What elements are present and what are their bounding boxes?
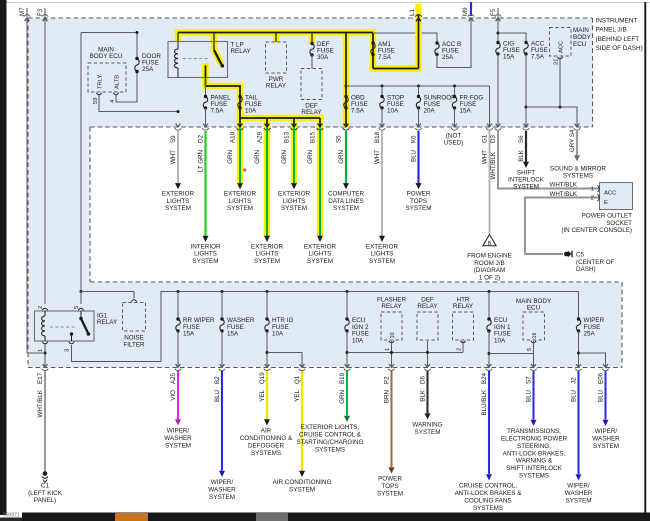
label ECU IGN 1 FUSE 10A [494, 317, 511, 344]
svg-text:PANEL): PANEL) [34, 497, 56, 504]
svg-text:ECU: ECU [573, 41, 587, 48]
svg-text:P2: P2 [383, 376, 390, 384]
relay T LP box [168, 42, 228, 78]
svg-text:5: 5 [74, 306, 80, 309]
junction main body ECU ACC pin wire [559, 106, 562, 109]
svg-text:SOUND & MIRROR: SOUND & MIRROR [550, 166, 606, 173]
label GRN on B15 [307, 150, 314, 164]
svg-text:S7: S7 [525, 376, 532, 384]
arrow B2 [219, 471, 225, 477]
svg-text:WASHER: WASHER [565, 490, 593, 497]
svg-text:B15: B15 [310, 131, 317, 143]
wire A29 GRN core [266, 127, 268, 237]
svg-text:(IN CENTER CONSOLE): (IN CENTER CONSOLE) [561, 227, 632, 234]
svg-text:21: 21 [554, 59, 560, 65]
wire FR FOG fuse feed [454, 86, 456, 97]
svg-text:RELAY: RELAY [97, 319, 118, 326]
junction ACC output split [525, 106, 528, 109]
fuse PANEL 7.5A [203, 95, 207, 110]
pin 2 of IG1 [38, 306, 48, 311]
svg-text:SYSTEM: SYSTEM [593, 443, 619, 450]
label Q19 [259, 372, 266, 384]
instrument panel J/B bottom band fill [28, 282, 622, 368]
svg-text:BLU/BLK: BLU/BLK [481, 389, 488, 415]
label WHT/BLK on D3 [490, 151, 497, 179]
wire feed to noise filter [81, 292, 134, 299]
connector exit S7 [530, 364, 537, 371]
text exterior lights system (A10) [224, 191, 257, 213]
wire SUNROOF fuse to K6 exit [418, 108, 420, 127]
connector exit B2 [219, 364, 226, 371]
svg-text:GRN: GRN [254, 150, 261, 164]
svg-text:DASH): DASH) [576, 266, 596, 273]
J/B dashed border top edge [28, 17, 593, 19]
wire main body ECU pin to S7 exit [533, 341, 535, 368]
svg-text:10A: 10A [494, 337, 506, 344]
bottom black bar [0, 513, 650, 521]
label OBD FUSE 7.5A [351, 95, 368, 115]
svg-text:RELAY: RELAY [231, 48, 252, 55]
label K6 [410, 135, 417, 143]
label VIO on A25 [170, 390, 177, 401]
wire HTR IG to Q19 exit [266, 331, 268, 368]
svg-text:15A: 15A [460, 107, 472, 114]
svg-text:SYSTEM: SYSTEM [227, 205, 253, 212]
svg-text:LIGHTS: LIGHTS [194, 251, 217, 258]
arrow S5 [343, 183, 349, 189]
J/B dashed border right edge of top band [592, 18, 594, 127]
label BLK on D6 [419, 389, 426, 402]
wire D2 LT GRN to interior lights [204, 131, 206, 237]
svg-text:LIGHTS: LIGHTS [167, 198, 190, 205]
connector exit S6 [523, 124, 530, 131]
fuse DOOR 25A [135, 57, 139, 73]
svg-text:AIR: AIR [261, 428, 272, 435]
connector exit D3 [495, 124, 502, 131]
svg-text:25A: 25A [442, 54, 454, 61]
svg-text:Q19: Q19 [259, 372, 266, 384]
svg-text:WIPER/: WIPER/ [167, 428, 190, 435]
wire ACC B fuse feed [436, 33, 438, 43]
label BLU on S7 [525, 390, 532, 402]
label F5 [490, 8, 497, 16]
wire FLASHER pin to P2 exit [391, 341, 393, 368]
svg-text:WARNING: WARNING [412, 422, 442, 429]
wire core AM1 loop bottom [373, 68, 419, 70]
connector exit S9 [175, 124, 182, 131]
fuse TAIL 10A [238, 95, 242, 110]
connector exit K6 [415, 124, 422, 131]
svg-text:E: E [604, 200, 608, 206]
text exterior lights system (B15) [304, 243, 337, 265]
wire FR FOG fuse to NOT USED exit [454, 108, 456, 127]
wire ALTB pin 4 to door fuse [116, 72, 137, 103]
svg-text:EXTERIOR: EXTERIOR [278, 191, 311, 198]
svg-text:SYSTEMS: SYSTEMS [473, 505, 503, 512]
wire core A10 drop [239, 118, 241, 127]
svg-text:RELAY: RELAY [266, 82, 287, 89]
svg-text:ECU: ECU [527, 305, 541, 312]
stray red scan dot [243, 168, 246, 171]
instrument panel J/B top band fill [28, 18, 593, 127]
svg-text:WHT/BLK: WHT/BLK [549, 182, 577, 189]
svg-text:LIGHTS: LIGHTS [229, 198, 252, 205]
label M7 [19, 7, 26, 16]
label WHT/BLK on E17 [37, 389, 44, 417]
svg-text:GRN: GRN [339, 390, 346, 404]
label S9 [170, 135, 177, 143]
svg-text:16: 16 [532, 333, 538, 339]
junction F5 split [497, 32, 500, 35]
svg-text:TOPS: TOPS [410, 198, 427, 205]
connector exit S4 [574, 124, 581, 131]
svg-text:25A: 25A [584, 331, 596, 338]
svg-text:TOPS: TOPS [381, 483, 398, 490]
svg-text:COMPUTER: COMPUTER [328, 191, 364, 198]
text exterior lights system (A29) [251, 243, 284, 265]
svg-text:7.5A: 7.5A [378, 54, 392, 61]
junction HTR IG at bus [266, 290, 269, 293]
junction RR WIPER at bus [177, 290, 180, 293]
svg-text:ELECTRONIC POWER: ELECTRONIC POWER [501, 436, 568, 443]
arrow S4 [574, 155, 580, 161]
fuse AM1 7.5A [371, 41, 375, 56]
svg-text:SYSTEM: SYSTEM [165, 205, 191, 212]
label WHT on G1 [481, 150, 488, 164]
wire B2 BLU [221, 371, 223, 471]
wire core coil drop [177, 33, 179, 43]
svg-text:(CENTER OF: (CENTER OF [576, 259, 615, 266]
svg-text:BLU: BLU [214, 390, 221, 402]
svg-text:WASHER: WASHER [208, 487, 236, 494]
arrow B19 [344, 416, 350, 422]
label NOT USED [444, 133, 464, 147]
label HTR RELAY [453, 297, 474, 311]
svg-text:LIGHTS: LIGHTS [371, 251, 394, 258]
connector exit A25 [175, 364, 182, 371]
svg-text:BLU: BLU [597, 390, 604, 402]
relay FLASHER dashed box [381, 312, 402, 340]
svg-text:GRN: GRN [307, 150, 314, 164]
svg-text:F3: F3 [37, 8, 44, 16]
svg-text:B13: B13 [284, 131, 291, 143]
label F3 [37, 8, 44, 16]
svg-text:TRLY: TRLY [98, 74, 104, 89]
arrow Q1 [299, 471, 305, 477]
svg-text:LT GRN: LT GRN [197, 150, 204, 172]
label B19 [339, 372, 346, 384]
svg-text:EXTERIOR: EXTERIOR [251, 243, 284, 250]
junction STOP at bus [381, 85, 384, 88]
wire WASHER feed [221, 292, 223, 320]
wire core OBD drop [345, 33, 347, 128]
svg-text:SIDE OF DASH): SIDE OF DASH) [596, 45, 643, 52]
wire J2 BLU [577, 371, 579, 474]
text sound and mirror systems (S4) [550, 166, 606, 180]
junction ECU IGN2 at relay bus [346, 351, 349, 354]
pin 10 of FLASHER relay [389, 333, 396, 343]
fuse ECU IGN 1 10A [487, 317, 491, 332]
T LP relay internal dashed link [183, 58, 208, 60]
text system block B19 [297, 424, 364, 453]
svg-text:15A: 15A [227, 331, 239, 338]
IG1 switch arm [79, 311, 90, 336]
arrow A29 [264, 236, 270, 242]
pin of noise filter [131, 300, 136, 302]
svg-text:POWER: POWER [407, 191, 431, 198]
svg-text:7.5A: 7.5A [211, 107, 225, 114]
label ACC FUSE 7.5A [531, 41, 548, 61]
right page border line [644, 2, 646, 513]
svg-text:POWER OUTLET: POWER OUTLET [582, 213, 633, 220]
svg-text:WIPER/: WIPER/ [567, 483, 590, 490]
svg-text:RELAY: RELAY [381, 303, 402, 310]
wire S9 WHT to exterior lights [177, 131, 179, 184]
fuse DEF 30A [310, 42, 314, 57]
svg-text:LIGHTS: LIGHTS [309, 251, 332, 258]
wire D3 WHT/BLK to power outlet pin 1 [498, 131, 599, 189]
relay DEF dashed box (top) [301, 69, 322, 100]
arrow D2 [203, 236, 209, 242]
svg-text:SYSTEMS: SYSTEMS [519, 472, 549, 479]
wire pin3 to ignition bus [72, 292, 579, 362]
svg-text:SYSTEM: SYSTEM [193, 258, 219, 265]
svg-text:SYSTEM: SYSTEM [377, 490, 403, 497]
connector exit D6 [424, 364, 431, 371]
label T LP RELAY [231, 42, 252, 55]
svg-text:SYSTEM: SYSTEM [289, 487, 315, 494]
svg-text:(BEHIND LEFT: (BEHIND LEFT [596, 36, 640, 43]
svg-text:SYSTEM: SYSTEM [415, 429, 441, 436]
label GRN on B19 [339, 390, 346, 404]
junction WIPER split [577, 352, 580, 355]
junction ECU IGN1 at bus [488, 290, 491, 293]
svg-text:ROOM J/B: ROOM J/B [474, 260, 504, 267]
entry wire M7 [24, 8, 31, 21]
main body ECU (bottom) dashed box [523, 312, 545, 340]
label BLU on J2 [570, 390, 577, 402]
label DEF RELAY (bottom) [417, 297, 438, 311]
wire ACC pin down to junction [559, 58, 561, 108]
wire Q19 YEL [266, 371, 268, 419]
label E06 [597, 372, 604, 384]
svg-text:WHT/BLK: WHT/BLK [549, 191, 577, 198]
label B15 [310, 131, 317, 143]
svg-text:10A: 10A [387, 107, 399, 114]
svg-text:MAIN: MAIN [573, 27, 589, 34]
wire F5 to ACC fuse [498, 33, 526, 43]
svg-text:EXTERIOR: EXTERIOR [304, 243, 337, 250]
wire DEF fuse to DEF relay [311, 55, 313, 69]
label YEL on Q1 [294, 389, 301, 401]
label IG1 RELAY [97, 313, 118, 326]
svg-text:BLK: BLK [518, 149, 525, 162]
connector exit B13 [291, 124, 298, 131]
svg-text:M7: M7 [19, 7, 26, 16]
J/B dashed border left edge [27, 18, 29, 368]
J/B title text [596, 18, 643, 53]
svg-text:J2: J2 [570, 377, 577, 384]
junction pin1/M7 [44, 352, 47, 355]
fuse ECU IGN 2 10A [345, 317, 349, 332]
wire core B13 drop [293, 118, 295, 127]
svg-text:BLK: BLK [419, 389, 426, 402]
connector exit B18 [379, 124, 386, 131]
label B24 [481, 372, 488, 384]
connector C1 symbol [42, 471, 48, 482]
svg-text:10A: 10A [272, 331, 284, 338]
fuse WASHER 15A [220, 317, 224, 332]
svg-text:COOLING FANS: COOLING FANS [464, 497, 511, 504]
wire ECU IGN1 to main body ECU pin [489, 353, 534, 355]
wire ACC B bottom to M9 [437, 18, 471, 68]
connector exit A10 [237, 124, 244, 131]
svg-text:S9: S9 [170, 135, 177, 143]
entry wire F3 [42, 8, 49, 21]
junction ECU IGN2 at bus [346, 290, 349, 293]
svg-text:E06: E06 [597, 372, 604, 384]
wire RR WIPER to A25 exit [177, 331, 179, 368]
label PANEL FUSE 7.5A [211, 95, 232, 115]
svg-text:10A: 10A [245, 107, 257, 114]
wire CIG fuse to D3 exit [497, 54, 499, 127]
svg-text:D6: D6 [419, 376, 426, 384]
arrow A10 [237, 183, 243, 189]
connector exit S5 [343, 124, 350, 131]
svg-text:1: 1 [38, 349, 44, 352]
svg-text:WASHER: WASHER [592, 436, 620, 443]
text system block J2 [565, 483, 593, 505]
arrow Q19 [264, 419, 270, 425]
svg-text:K6: K6 [410, 135, 417, 143]
J/B dashed border bottom edge [28, 367, 622, 369]
wire ACC fuse to S6 exit [525, 54, 527, 127]
svg-text:WHT/BLK: WHT/BLK [490, 151, 497, 179]
wire S4 GRY to sound and mirror [576, 131, 578, 156]
svg-text:10A: 10A [352, 337, 364, 344]
svg-text:TRANSMISSIONS,: TRANSMISSIONS, [507, 428, 561, 435]
junction FLASHER at relay bus [390, 351, 393, 354]
svg-text:YEL: YEL [294, 389, 301, 401]
svg-text:DEFOGGER: DEFOGGER [248, 442, 284, 449]
wire A10 GRN core [239, 127, 241, 184]
wire ECU IGN2 feed [346, 292, 348, 320]
IG1 switch contact [69, 332, 74, 344]
arrow K6 [416, 183, 422, 189]
arrow S7 [531, 420, 537, 426]
wire STOP fuse to B18 exit [381, 108, 383, 127]
wire E06 BLU [604, 371, 606, 420]
svg-text:15A: 15A [183, 331, 195, 338]
junction DEF at relay bus [426, 351, 429, 354]
svg-text:INTERIOR: INTERIOR [190, 243, 221, 250]
text C5 center of dash [576, 252, 615, 274]
label STOP FUSE 10A [387, 95, 404, 115]
fuse FR FOG 15A [452, 95, 456, 110]
label FR FOG FUSE 15A [460, 95, 484, 115]
label M9 [462, 7, 469, 16]
connector exit B15 [317, 124, 324, 131]
svg-text:EXTERIOR: EXTERIOR [366, 243, 399, 250]
text from engine room J/B [467, 253, 511, 282]
svg-text:SYSTEMS: SYSTEMS [251, 450, 281, 457]
svg-text:CONDITIONING &: CONDITIONING & [240, 435, 293, 442]
main body ECU (top) dashed box [88, 63, 126, 92]
connector exit B24 [486, 364, 493, 371]
wire SUNROOF fuse feed [418, 86, 420, 97]
svg-text:S5: S5 [336, 135, 343, 143]
fuse ACC B 25A [435, 41, 439, 56]
svg-text:DATA LINES: DATA LINES [328, 198, 363, 205]
fuse STOP 10A [380, 95, 384, 110]
junction WASHER at bus [221, 290, 224, 293]
arrow S6 [523, 162, 529, 168]
fuse WIPER 25A [576, 317, 580, 332]
svg-text:S6: S6 [518, 135, 525, 143]
wire ACC output to S4 drop [526, 107, 577, 127]
label LT GRN on D2 [197, 150, 204, 172]
wire WIPER split to E06 exit [579, 353, 606, 368]
wire HTR relay pin to bus [462, 341, 464, 353]
arrow B24 [486, 474, 492, 480]
wire S5 GRN to computer data lines [345, 131, 347, 184]
svg-text:GRN: GRN [338, 150, 345, 164]
text exterior lights system (B18) [366, 243, 399, 265]
wire P2 BRN [390, 371, 392, 467]
main body ECU (top right) dashed box [550, 28, 572, 57]
svg-text:ACC: ACC [559, 41, 565, 53]
triangle connector B [483, 235, 496, 248]
svg-text:SYSTEM: SYSTEM [165, 442, 191, 449]
wire core B15 drop [319, 118, 321, 127]
junction HTR IG split [266, 351, 269, 354]
svg-text:A10: A10 [230, 131, 237, 143]
pin number 2 on HTR wire [456, 348, 462, 351]
pin of HTR relay [460, 341, 465, 343]
arrow S9 [175, 183, 181, 189]
arrow B13 [291, 183, 297, 189]
label NOISE FILTER [123, 335, 145, 349]
label BLU on K6 [410, 150, 417, 162]
svg-text:SYSTEM: SYSTEM [254, 258, 280, 265]
junction FR FOG at bus [453, 85, 456, 88]
label G1 [481, 134, 488, 143]
svg-text:1: 1 [385, 348, 391, 351]
svg-text:AIR CONDITIONING: AIR CONDITIONING [273, 479, 332, 486]
svg-text:SYSTEM: SYSTEM [333, 205, 359, 212]
wire core PWR relay drop [275, 33, 277, 43]
label BLU on B2 [214, 390, 221, 402]
coil of T LP relay [175, 42, 178, 78]
text system block B24 [455, 483, 523, 512]
label DEF RELAY (top) [301, 103, 322, 116]
wire relay pickup bus [347, 352, 463, 354]
svg-text:YEL: YEL [259, 389, 266, 401]
connector exit E17 [42, 364, 49, 371]
svg-text:GRN: GRN [281, 150, 288, 164]
label A10 [230, 131, 237, 143]
relay HTR dashed box [453, 312, 474, 340]
pin number 21 [554, 59, 560, 65]
wire D6 BLK [426, 371, 428, 413]
label TAIL FUSE 10A [245, 95, 262, 115]
label SUNROOF FUSE 20A [424, 95, 456, 115]
svg-text:STARTING/CHARGING: STARTING/CHARGING [297, 439, 364, 446]
label WHT/BLK pin1 wire [549, 182, 577, 189]
wire S7 BLU [532, 371, 534, 420]
label BLU/BLK on B24 [481, 389, 488, 415]
pin of DEF relay (bottom) [0, 0, 1, 1]
